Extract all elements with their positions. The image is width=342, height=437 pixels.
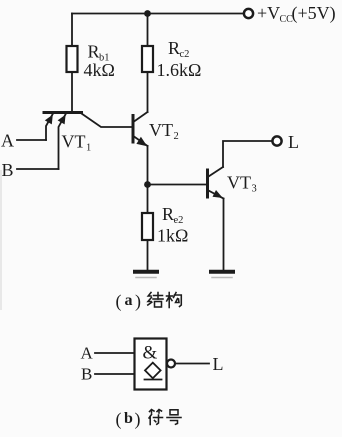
wire: Vcc junction to Rc2 — [147, 14, 149, 47]
svg-text:1: 1 — [86, 143, 91, 154]
svg-text:e2: e2 — [174, 215, 184, 226]
svg-text:R: R — [168, 38, 180, 58]
wire: Rc2 to VT2 collector — [147, 72, 149, 112]
wire: Rb1 to VT1 base — [71, 72, 73, 112]
gate output inversion bubble — [167, 360, 175, 368]
label: Rb1 — [88, 42, 110, 64]
svg-text:3: 3 — [252, 184, 257, 195]
open-collector qualifier diamond — [145, 363, 161, 379]
svg-text:a: a — [125, 292, 133, 309]
wire: +Vcc top rail — [72, 13, 244, 15]
scan artifact: faint left-edge smudge — [0, 170, 2, 310]
svg-text:R: R — [162, 204, 174, 224]
svg-text:VT: VT — [62, 132, 86, 152]
open-collector qualifier underline — [145, 379, 162, 381]
svg-text:R: R — [88, 42, 100, 62]
svg-text:L: L — [288, 132, 299, 152]
wire: gate input A — [95, 352, 135, 354]
wire: junction to VT3 base — [148, 184, 207, 186]
ground (below VT3) — [209, 270, 235, 274]
ground (below Re2) — [133, 270, 159, 274]
VT2 emitter arrow — [136, 137, 147, 146]
transistor VT2 — [133, 112, 148, 146]
VT2 collector — [134, 112, 148, 122]
VT3 collector — [209, 167, 224, 177]
VT1 emitter 2 arrow — [58, 115, 66, 125]
wire: VT2 emitter down to junction — [147, 146, 149, 185]
label: VT2 — [149, 120, 179, 142]
resistor Re2 — [142, 213, 153, 240]
svg-text:VT: VT — [149, 120, 173, 140]
svg-text:L: L — [213, 354, 224, 374]
node: VT2 emitter / Re2 / VT3 base junction — [144, 181, 151, 188]
VT3 base bar — [206, 170, 209, 197]
VT2 base bar — [132, 116, 135, 143]
wire: gate input B — [95, 373, 135, 375]
svg-text:1kΩ: 1kΩ — [157, 226, 188, 246]
svg-text:1.6kΩ: 1.6kΩ — [157, 60, 202, 80]
svg-text:2: 2 — [174, 131, 179, 142]
node: junction of Rc2 column on Vcc rail — [144, 10, 151, 17]
transistor VT1 (multi-emitter input transistor) — [44, 113, 132, 170]
wire: VT3 emitter down to ground — [223, 199, 225, 271]
VT1 collector — [82, 114, 132, 128]
label: Re2 — [162, 204, 183, 226]
caption (a) — [116, 291, 142, 312]
wire: Re2 to ground — [147, 240, 149, 270]
VT3 emitter — [209, 191, 224, 199]
svg-text:B: B — [81, 365, 92, 384]
VT1 emitter 1 — [46, 114, 53, 141]
label: VT1 — [62, 132, 92, 154]
svg-text:B: B — [2, 160, 14, 180]
label: VT3 — [227, 173, 257, 195]
svg-text:4kΩ: 4kΩ — [84, 60, 115, 80]
wire: rail to Rb1 — [71, 14, 73, 47]
VT1 base bar — [44, 111, 82, 114]
svg-text:b: b — [124, 410, 133, 427]
caption character 符 — [149, 410, 163, 425]
wire: junction to Re2 — [147, 185, 149, 214]
label: +Vcc(+5V) — [257, 3, 336, 25]
svg-text:A: A — [81, 344, 94, 363]
transistor VT3 — [208, 167, 224, 199]
caption character 结 — [148, 293, 163, 308]
terminal: +Vcc open circle — [244, 9, 253, 18]
svg-text:A: A — [1, 131, 14, 151]
wire: gate output to L — [176, 363, 210, 365]
wire: VT3 collector up and right to L — [223, 141, 273, 167]
NAND gate symbol outline — [135, 339, 167, 390]
VT1 emitter 1 arrow — [45, 115, 53, 125]
svg-text:VT: VT — [227, 173, 251, 193]
svg-text:): ) — [135, 291, 141, 312]
wire: input A to VT1 emitter 1 — [17, 139, 46, 141]
terminal: output L open circle — [272, 136, 281, 145]
VT2 emitter — [134, 137, 148, 147]
caption character 构 — [167, 293, 182, 308]
svg-text:(+5V): (+5V) — [292, 3, 336, 24]
label: Rc2 — [168, 38, 189, 60]
caption (b) — [116, 409, 141, 430]
VT1 emitter 2 — [59, 114, 67, 170]
svg-text:): ) — [135, 409, 141, 430]
svg-text:c2: c2 — [180, 49, 190, 60]
resistor Rc2 — [142, 46, 153, 72]
svg-text:(: ( — [116, 291, 122, 312]
wire: input B to VT1 emitter 2 — [17, 168, 59, 170]
VT3 emitter arrow — [213, 190, 223, 198]
caption character 号 — [167, 410, 181, 425]
svg-text:+V: +V — [257, 3, 280, 23]
svg-text:&: & — [143, 343, 158, 364]
resistor Rb1 — [67, 46, 78, 72]
svg-text:(: ( — [116, 409, 122, 430]
